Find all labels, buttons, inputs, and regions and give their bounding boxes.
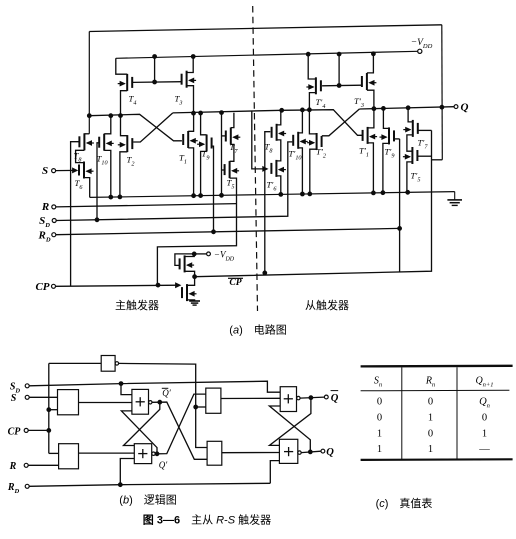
wire: master load gate line T4-T3 bbox=[133, 81, 182, 84]
node: RD end on T9' gate riser bbox=[398, 227, 402, 231]
wire: T5 gate lead bbox=[222, 169, 226, 171]
svg-text:T2: T2 bbox=[127, 155, 135, 168]
terminal: SD input circle bbox=[52, 219, 56, 223]
node: CP inverter -VDD node bbox=[192, 252, 196, 256]
wire: T7 source to T5 drain bbox=[230, 144, 234, 161]
terminal: G3 output bubble bbox=[149, 401, 152, 404]
wire: T7 gate lead bbox=[222, 135, 226, 137]
node: T1' source on rail bbox=[372, 191, 376, 195]
node: SD branch to G3 bbox=[119, 382, 123, 386]
node: Q output node bbox=[308, 450, 312, 454]
transistor 6 bbox=[75, 162, 94, 191]
svg-text:T8: T8 bbox=[265, 142, 274, 155]
wire: T1' source to rail bbox=[368, 143, 374, 193]
terminal: -VDD open circle bbox=[418, 49, 422, 53]
wire: RD logic line with risers into G4 and G8 bbox=[29, 483, 270, 486]
wire: master node line C with cross-couple diagonal to T1 gate bbox=[89, 114, 182, 141]
wire: T8 drain stub bbox=[84, 133, 89, 135]
wire: T4' source through C' to T2' drain bbox=[309, 93, 316, 134]
svg-text:0: 0 bbox=[377, 397, 382, 408]
wire: T5 source down to R and CP inverter loop bbox=[157, 178, 236, 285]
wire: R logic line bbox=[28, 464, 58, 466]
svg-text:T′4: T′4 bbox=[316, 97, 326, 110]
wire: T9 drain to line D bbox=[201, 113, 207, 135]
wire: T8 source to T6 drain bbox=[76, 150, 85, 162]
transistor 10 bbox=[97, 134, 114, 166]
node: Qbar output node bbox=[309, 396, 313, 400]
wire: T7/T5 gate column from line D to rail bbox=[221, 113, 223, 196]
svg-text:0: 0 bbox=[428, 397, 433, 408]
wire: T7' gate lead bbox=[417, 129, 431, 131]
svg-text:—: — bbox=[478, 444, 490, 455]
wire: T10 source to rail bbox=[104, 150, 111, 197]
wire: feedback Qbar to G8 (cross) bbox=[270, 398, 311, 446]
gate G3 master NOR bbox=[132, 389, 149, 414]
node: T2' drain / T4' source on line C' bbox=[308, 108, 312, 112]
wire: G3 output node bbox=[152, 401, 160, 403]
node: loop junction on CP line bbox=[156, 283, 160, 287]
svg-text:T′3: T′3 bbox=[354, 96, 364, 109]
terminal: S input circle bbox=[52, 169, 56, 173]
node: T2 source on rail bbox=[118, 195, 122, 199]
svg-text:Rn: Rn bbox=[425, 376, 435, 389]
transistor 6' bbox=[267, 160, 286, 192]
svg-text:1: 1 bbox=[428, 413, 433, 424]
transistor 11 bbox=[0, 0, 194, 272]
node: CP line junction bbox=[47, 429, 51, 433]
wire: Q' to second cross toward G5 bbox=[157, 394, 206, 454]
transistor 7 bbox=[226, 128, 241, 155]
gate G4 master NOR bbox=[134, 444, 151, 464]
wire: T10' source to rail bbox=[298, 148, 302, 194]
svg-text:Q: Q bbox=[331, 393, 339, 404]
gate G8 slave NOR bbox=[279, 439, 297, 463]
node: master gate-line junction bbox=[153, 80, 157, 84]
node: T3' source / T1' drain on line D' bbox=[372, 107, 376, 111]
svg-text:从触发器: 从触发器 bbox=[305, 298, 349, 312]
gate G5 slave gating box bbox=[206, 388, 221, 413]
terminal: CP logic circle bbox=[24, 428, 28, 432]
node: T7/T5 gate column on line D bbox=[220, 111, 224, 115]
wire: CP inverter -VDD lead bbox=[194, 253, 206, 255]
terminal: S logic circle bbox=[25, 395, 29, 399]
transistor 4' bbox=[306, 77, 325, 109]
transistor 3 bbox=[175, 71, 197, 106]
transistor 1 bbox=[179, 131, 198, 165]
node: T10 drain on line C bbox=[109, 114, 113, 118]
wire: T8 gate lead and CP riser bbox=[71, 142, 80, 286]
svg-text:T′7: T′7 bbox=[418, 138, 429, 151]
node: RD branch to G4 bbox=[118, 483, 122, 487]
transistor 10' bbox=[289, 132, 308, 161]
wire: G7 output to Qbar terminal bbox=[300, 397, 324, 398]
svg-text:(c) 真值表: (c) 真值表 bbox=[376, 496, 433, 510]
svg-text:RD: RD bbox=[7, 482, 20, 495]
wire: T9' drain to line D' bbox=[383, 108, 389, 128]
node: T9 gate on RD line bbox=[212, 230, 216, 234]
svg-text:Q: Q bbox=[461, 102, 469, 114]
wire: T2 source to rail bbox=[120, 152, 127, 197]
terminal: CP input circle bbox=[52, 284, 56, 288]
wire: T8' source to T6' drain bbox=[276, 140, 280, 161]
svg-text:T6: T6 bbox=[75, 178, 84, 191]
node: T10 source on rail bbox=[109, 195, 113, 199]
node: CPbar to G5 bbox=[194, 405, 198, 409]
gate G1 input AND box bbox=[58, 390, 79, 415]
svg-text:T′9: T′9 bbox=[385, 147, 395, 160]
wire: T4 drain lead to -VDD rail bbox=[116, 58, 127, 74]
wire: slave load gate line T4'-T3' bbox=[322, 84, 362, 87]
transistor 12 bbox=[0, 0, 197, 301]
terminal: G7 output bubble bbox=[297, 396, 300, 399]
svg-text:T8: T8 bbox=[74, 151, 83, 164]
svg-text:CP: CP bbox=[8, 426, 22, 437]
transistor 5 bbox=[225, 161, 240, 190]
node: T7' drain on line D' bbox=[406, 106, 410, 110]
wire: T9' source to rail bbox=[383, 143, 389, 192]
wire: RD input line bbox=[56, 228, 400, 234]
wire: T3 source down to node line D bbox=[187, 86, 194, 114]
wire: T8' drain to line C' bbox=[277, 110, 281, 125]
transistor 8 bbox=[74, 133, 94, 163]
svg-text:T′10: T′10 bbox=[289, 149, 303, 162]
wire: T7' source to T5' drain bbox=[407, 135, 413, 151]
wire: T11 source to CPbar node bbox=[185, 271, 195, 276]
transistor 2 bbox=[118, 135, 135, 167]
svg-text:T7: T7 bbox=[230, 142, 239, 155]
wire: CP input line with arrow bbox=[56, 285, 179, 286]
svg-text:Q: Q bbox=[326, 447, 334, 458]
terminal: CP inverter -VDD circle bbox=[207, 252, 211, 256]
svg-text:T9: T9 bbox=[202, 149, 210, 162]
wire: feedback Qbar' to G4 (cross) bbox=[124, 402, 160, 445]
wire: T7' drain to line D' bbox=[408, 108, 413, 122]
transistor 2' bbox=[307, 133, 326, 159]
svg-text:T: T bbox=[0, 0, 6, 2]
terminal: G4 output bubble bbox=[152, 452, 155, 455]
transistor 3' bbox=[354, 73, 376, 109]
wire: T10 drain to line C bbox=[104, 116, 111, 134]
wire: common source rail to ground bbox=[90, 192, 455, 198]
svg-text:Q′: Q′ bbox=[162, 388, 171, 398]
node: Qbar' node bbox=[158, 400, 162, 404]
svg-text:CP: CP bbox=[229, 278, 241, 288]
svg-text:T4: T4 bbox=[129, 94, 137, 107]
wire: CP logic line and fanout riser bbox=[28, 429, 48, 431]
svg-text:Sn: Sn bbox=[374, 376, 382, 389]
wire: T12 source to ground bbox=[187, 300, 195, 301]
svg-text:R: R bbox=[41, 201, 49, 213]
wire: R input line bbox=[56, 204, 237, 207]
terminal: Q output circle bbox=[454, 105, 458, 109]
node: CP to G1 bbox=[47, 408, 51, 412]
wire: SD input line to slave T10' gate riser bbox=[56, 142, 292, 221]
terminal: Qbar output circle bbox=[324, 395, 328, 399]
svg-text:T′1: T′1 bbox=[359, 146, 369, 159]
transistor 4 bbox=[118, 74, 137, 106]
svg-text:T10: T10 bbox=[97, 154, 109, 167]
wire: G6 output to G8 bbox=[222, 452, 280, 454]
wire: outer feedback right riser down to Q line and slave gate column bbox=[441, 25, 444, 160]
svg-text:(a) 电路图: (a) 电路图 bbox=[229, 324, 286, 337]
wire: feedback stub into T7'/T5' gate column bbox=[431, 159, 442, 161]
wire: T7 drain to line D bbox=[231, 113, 234, 128]
wire: T12 drain to CPbar node bbox=[187, 277, 195, 286]
node: junction outer riser with master node line C bbox=[87, 114, 91, 118]
wire: T1 drain to line D bbox=[188, 113, 193, 131]
wire: G5 output to G7 bbox=[221, 397, 280, 399]
wire: T5' source to rail bbox=[407, 162, 413, 193]
wire: T4 source down through node line C to T2 drain bbox=[121, 91, 128, 136]
wire: riser slave gate line to rail bbox=[338, 54, 340, 85]
svg-text:Qn+1: Qn+1 bbox=[475, 376, 493, 389]
svg-text:主触发器: 主触发器 bbox=[115, 298, 159, 312]
terminal: RD input circle bbox=[52, 233, 56, 237]
node: T4' drain on rail bbox=[306, 52, 310, 56]
wire: slave output line D' (Q) with cross diagonal to T2' gate bbox=[359, 107, 454, 109]
wire: outer feedback top run bbox=[89, 25, 442, 32]
node: T9 drain on line D bbox=[199, 111, 203, 115]
table: truth table frame bbox=[361, 366, 513, 460]
wire: T4' drain to -VDD rail bbox=[308, 54, 316, 79]
node: T5' source on rail bbox=[406, 190, 410, 194]
node: T9' drain on line D' bbox=[382, 107, 386, 111]
node: T6' source on rail bbox=[279, 193, 283, 197]
svg-text:−VDD: −VDD bbox=[411, 38, 433, 50]
wire: T6' source to rail bbox=[276, 176, 280, 195]
svg-text:S: S bbox=[11, 393, 17, 404]
wire: T9 source to rail bbox=[201, 151, 207, 195]
terminal: G8 output bubble bbox=[298, 451, 301, 454]
wire: T6 source to rail start bbox=[84, 178, 90, 198]
svg-text:SD: SD bbox=[39, 215, 50, 229]
wire: T9' gate riser from gate lead down to CPbar line bbox=[399, 139, 401, 272]
wire: T3 drain lead to -VDD rail bbox=[187, 57, 194, 73]
wire: Qbar' to second cross toward G6 bbox=[160, 402, 207, 459]
svg-text:S: S bbox=[42, 165, 48, 177]
transistor 5' bbox=[403, 147, 421, 183]
wire: T2' source to rail bbox=[310, 149, 317, 194]
transistor 7' bbox=[403, 120, 428, 150]
wire: T11 drain to -VDD node bbox=[185, 254, 195, 257]
wire: T11 gate loop to drain bbox=[175, 254, 194, 266]
node: master gate-line rail junction bbox=[153, 55, 157, 59]
svg-text:1: 1 bbox=[428, 444, 433, 455]
node: T2' source on rail bbox=[308, 192, 312, 196]
wire: T3' source to line D' bbox=[367, 90, 374, 109]
node: CPbar output node bbox=[193, 275, 197, 279]
wire: G0 output CPbar riser to G5 and G6 bbox=[119, 363, 208, 447]
svg-text:R: R bbox=[9, 461, 17, 472]
svg-text:−VDD: −VDD bbox=[214, 250, 235, 263]
svg-text:1: 1 bbox=[377, 429, 382, 440]
svg-text:0: 0 bbox=[482, 413, 487, 424]
terminal: R input circle bbox=[52, 205, 56, 209]
svg-text:T1: T1 bbox=[179, 153, 187, 166]
wire: T1 source to rail bbox=[188, 148, 193, 196]
node: T2 drain / T4 source on line C bbox=[119, 114, 123, 118]
wire: S logic line bbox=[29, 396, 57, 398]
svg-text:0: 0 bbox=[428, 429, 433, 440]
wire: T10 gate lead riser bbox=[97, 143, 100, 220]
node: slave gate-line junction bbox=[337, 84, 341, 88]
transistor 1' bbox=[359, 127, 377, 158]
wire: master D riser to T6' gate with arrow bbox=[252, 111, 266, 169]
node: T8' drain on line C' bbox=[280, 108, 284, 112]
node: T5 gate column on rail bbox=[220, 193, 224, 197]
node: T10 gate on SD line bbox=[95, 218, 99, 222]
svg-text:T′5: T′5 bbox=[411, 171, 421, 184]
node: junction outer riser with Q output line bbox=[440, 105, 444, 109]
wire: T9' gate lead bbox=[394, 138, 400, 140]
wire: G2 output to G4 bbox=[79, 452, 135, 454]
svg-text:1: 1 bbox=[377, 444, 382, 455]
svg-text:T′6: T′6 bbox=[267, 180, 278, 193]
gate G6 slave gating box bbox=[207, 441, 222, 465]
wire: master node line D continuing as slave input line C' bbox=[173, 110, 362, 136]
ground symbol CP inverter bbox=[189, 301, 200, 305]
node: T9 source on rail bbox=[199, 194, 203, 198]
gate G2 input AND box bbox=[59, 444, 79, 469]
node: T8' gate riser on CPbar bbox=[263, 271, 267, 275]
svg-text:0: 0 bbox=[377, 413, 382, 424]
wire: T3' drain to rail bbox=[367, 54, 374, 73]
wire: cross-couple diagonal from D to T2 gate bbox=[133, 113, 173, 142]
transistor 9' bbox=[380, 127, 395, 159]
svg-text:1: 1 bbox=[482, 429, 487, 440]
wire: SD logic line with jogs into G3 and G7 bbox=[29, 381, 280, 392]
terminal: RD logic circle bbox=[25, 484, 29, 488]
node: T10' source on rail bbox=[301, 192, 305, 196]
node: T3 source / T1 drain on line D bbox=[192, 111, 196, 115]
wire: feedback Q' to G3 (cross) bbox=[121, 411, 157, 454]
wire: T9 gate lead to RD line bbox=[211, 146, 214, 232]
svg-text:图 3—6 主从 R-S 触发器: 图 3—6 主从 R-S 触发器 bbox=[143, 513, 271, 527]
wire: -VDD supply rail bbox=[116, 51, 418, 58]
svg-text:T3: T3 bbox=[175, 94, 183, 107]
svg-text:T5: T5 bbox=[227, 178, 235, 191]
wire: T1' drain to line D' bbox=[368, 109, 374, 128]
wire: S input line with arrow bbox=[56, 169, 76, 171]
svg-text:RD: RD bbox=[37, 230, 50, 244]
wire: T5' gate lead bbox=[417, 155, 432, 157]
node: T9' source on rail bbox=[381, 191, 385, 195]
terminal: Q output circle logic bbox=[321, 449, 325, 453]
ground symbol main bbox=[447, 192, 462, 206]
transistor 8' bbox=[265, 124, 287, 154]
transistor 9 bbox=[197, 135, 212, 162]
terminal: R logic circle bbox=[24, 463, 28, 467]
wire: T8' gate lead and riser to CPbar bbox=[265, 132, 271, 273]
gate G0 CP inverter box bbox=[101, 356, 115, 372]
terminal: SD logic circle bbox=[25, 384, 29, 388]
wire: CPbar output line to slave riser bbox=[195, 130, 432, 276]
wire: T10' drain to line C' bbox=[298, 110, 302, 133]
node: T3' drain on rail bbox=[372, 52, 376, 56]
node: slave gate-line rail junction bbox=[337, 52, 341, 56]
node: T10' drain on line C' bbox=[301, 108, 305, 112]
svg-text:CP: CP bbox=[35, 281, 49, 293]
svg-text:Q′: Q′ bbox=[159, 460, 168, 470]
wire: G8 output to Q terminal bbox=[301, 451, 321, 452]
svg-text:(b) 逻辑图: (b) 逻辑图 bbox=[119, 493, 176, 507]
svg-text:Qn: Qn bbox=[479, 397, 490, 410]
wire: riser gate line to -VDD rail (master) bbox=[154, 57, 156, 83]
gate G7 slave NOR bbox=[280, 387, 296, 412]
node: T3 drain on -VDD rail bbox=[191, 55, 195, 59]
svg-text:T′2: T′2 bbox=[316, 147, 326, 160]
wire: master/slave dashed divider bbox=[253, 6, 258, 311]
terminal: G0 output bubble bbox=[115, 362, 118, 365]
node: T1 source on rail bbox=[192, 194, 196, 198]
node: Q' node bbox=[155, 452, 159, 456]
wire: feedback Q to G7 (cross) bbox=[269, 406, 310, 452]
wire: G1 output to G3 bbox=[79, 402, 132, 404]
wire: outer feedback left riser to master node line and T8 drain bbox=[88, 32, 90, 134]
wire: G4 output node bbox=[155, 453, 157, 455]
